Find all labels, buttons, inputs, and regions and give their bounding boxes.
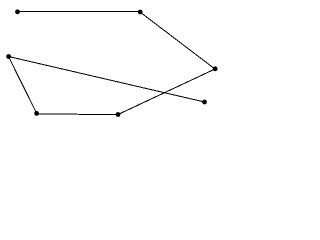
wire edge N4-N7 xyxy=(9,57,205,103)
wire edge N5-N6 xyxy=(37,113,119,116)
node N6 xyxy=(116,112,121,117)
node N7 xyxy=(202,100,207,105)
wire edge N2-N3 xyxy=(140,12,215,69)
node N4 xyxy=(6,54,11,59)
wire edge N1-N2 xyxy=(18,11,141,13)
node N2 xyxy=(138,10,143,15)
wire edge N4-N5 xyxy=(9,57,37,114)
node N3 xyxy=(213,66,218,71)
node N5 xyxy=(34,111,39,116)
wire edge N3-N6 xyxy=(118,69,215,115)
node N1 xyxy=(15,9,20,14)
